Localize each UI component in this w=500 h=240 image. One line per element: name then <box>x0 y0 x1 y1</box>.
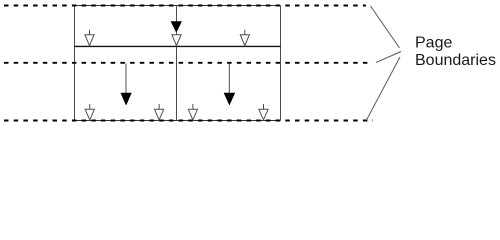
leader line to middle boundary <box>376 52 401 63</box>
middle page boundary dashed line <box>4 62 371 64</box>
open anchor arrow top-center <box>172 32 181 45</box>
filled arrow top-center <box>171 6 182 32</box>
leader line to top boundary <box>371 6 400 48</box>
filled arrow bottom-right column <box>224 64 235 106</box>
open anchor arrow bottom 3 <box>188 104 197 120</box>
bottom page boundary dashed line <box>4 120 373 122</box>
filled arrow bottom-left column <box>121 64 132 106</box>
svg-text:Boundaries: Boundaries <box>415 52 496 69</box>
page box right edge <box>280 6 282 121</box>
open anchor arrow bottom 2 <box>155 104 164 120</box>
open anchor arrow top-left <box>85 30 94 46</box>
svg-text:Page: Page <box>415 35 452 52</box>
leader line to bottom boundary <box>367 57 401 120</box>
region separator solid line <box>75 45 281 47</box>
page box bottom edge <box>75 120 281 122</box>
open anchor arrow bottom 1 <box>85 104 94 120</box>
column divider <box>176 47 178 121</box>
open anchor arrow bottom 4 <box>259 104 268 120</box>
page box left edge <box>74 6 76 121</box>
page box top edge <box>75 5 281 7</box>
open anchor arrow top-right <box>240 30 249 46</box>
top page boundary dashed line <box>4 5 366 7</box>
